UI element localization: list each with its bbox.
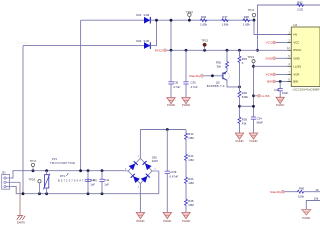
node top-line junctions bbox=[32, 169, 35, 172]
ground PGND under R45 bbox=[182, 212, 190, 222]
svg-text:4.7uF: 4.7uF bbox=[173, 85, 180, 89]
wire LL/SS pin bbox=[254, 65, 288, 67]
resistor R45 bbox=[185, 199, 195, 213]
svg-text:24VAC: 24VAC bbox=[17, 40, 29, 45]
svg-text:10k: 10k bbox=[314, 197, 319, 201]
port VCC bbox=[266, 41, 288, 45]
svg-text:1.65k: 1.65k bbox=[200, 22, 207, 26]
test point TP19 bbox=[247, 55, 255, 66]
ground EARTH bbox=[17, 216, 26, 225]
wire left AC rail bbox=[22, 46, 24, 194]
ground PGND under C39 bbox=[163, 212, 171, 222]
svg-text:EARTH: EARTH bbox=[17, 221, 25, 224]
resistor R39 bbox=[238, 117, 247, 134]
svg-text:10M: 10M bbox=[188, 158, 194, 162]
svg-text:PGND: PGND bbox=[163, 219, 171, 223]
resistor R38 bbox=[243, 15, 251, 27]
port GND bbox=[265, 57, 287, 61]
node RVCC junctions bbox=[170, 49, 173, 52]
svg-text:R40: R40 bbox=[299, 187, 305, 191]
wire AC neutral (bottom) bbox=[11, 187, 159, 194]
svg-text:VCR: VCR bbox=[293, 73, 299, 77]
svg-text:U4: U4 bbox=[293, 23, 297, 27]
svg-text:RVCC: RVCC bbox=[293, 48, 301, 52]
ground PGND lower right bbox=[302, 210, 311, 220]
test point TP15 bbox=[201, 39, 208, 51]
diodes in diamond bbox=[129, 161, 152, 183]
svg-text:BC856B-7-F: BC856B-7-F bbox=[207, 84, 225, 88]
svg-text:TP15: TP15 bbox=[201, 39, 208, 43]
capacitor C40 bbox=[85, 171, 95, 194]
svg-text:PGND: PGND bbox=[136, 219, 144, 223]
wire RVCC line bbox=[167, 49, 288, 51]
svg-text:S1M: S1M bbox=[144, 39, 150, 43]
svg-text:2.05: 2.05 bbox=[297, 8, 303, 12]
svg-text:43k: 43k bbox=[242, 122, 247, 126]
svg-text:PGND: PGND bbox=[235, 139, 243, 143]
port BW bbox=[267, 80, 287, 84]
pin 6 BW bbox=[288, 78, 299, 83]
svg-text:1uF: 1uF bbox=[104, 182, 109, 186]
svg-text:R41: R41 bbox=[297, 1, 303, 5]
wire second AC rail bbox=[80, 20, 82, 171]
pin 7 VCR bbox=[288, 71, 300, 76]
wire AC line (top) bbox=[11, 171, 125, 178]
svg-text:D31: D31 bbox=[136, 13, 141, 17]
port VCR bbox=[266, 73, 288, 77]
diode D31 bbox=[81, 13, 171, 24]
ground PGND under C38 bbox=[276, 97, 284, 107]
node standby junction bbox=[211, 74, 214, 77]
svg-text:1.65k: 1.65k bbox=[243, 22, 250, 26]
wire RVCC drop bbox=[170, 20, 172, 50]
thermistor RT1 label bbox=[58, 173, 98, 182]
svg-text:D32: D32 bbox=[136, 39, 141, 43]
port Standby (upper) bbox=[189, 74, 203, 78]
svg-text:PGND: PGND bbox=[302, 216, 310, 220]
ground PGND under bridge bbox=[136, 212, 144, 222]
wire DC bus bbox=[140, 129, 186, 131]
resistor R30 549k bbox=[238, 87, 248, 117]
pin 4 LL/SS bbox=[288, 63, 302, 68]
svg-text:Standby: Standby bbox=[270, 190, 282, 194]
svg-text:30k: 30k bbox=[216, 65, 221, 69]
node bottom-line junctions bbox=[22, 192, 25, 195]
svg-text:PGND: PGND bbox=[249, 139, 257, 143]
pin 1 HV bbox=[288, 31, 298, 36]
svg-text:TP17: TP17 bbox=[30, 159, 37, 163]
svg-text:D30: D30 bbox=[152, 155, 157, 159]
resistor R33 bbox=[238, 50, 247, 87]
svg-text:TP19: TP19 bbox=[247, 55, 254, 59]
resistor R40 bbox=[285, 187, 320, 199]
wire cross link bbox=[240, 105, 254, 107]
svg-text:1.65k: 1.65k bbox=[222, 22, 229, 26]
svg-text:HV: HV bbox=[293, 33, 297, 37]
svg-text:UCC25640xDDBR: UCC25640xDDBR bbox=[293, 88, 320, 92]
svg-text:4.7uF: 4.7uF bbox=[191, 85, 198, 89]
svg-text:VCC: VCC bbox=[293, 41, 299, 45]
svg-text:10M: 10M bbox=[188, 181, 194, 185]
svg-text:420V: 420V bbox=[152, 159, 158, 163]
pin 5 GND bbox=[288, 55, 300, 60]
capacitor C34 bbox=[251, 117, 263, 133]
ground PGND under C34 bbox=[249, 133, 257, 143]
wire top-right feed line bbox=[258, 5, 320, 50]
capacitor C35 bbox=[183, 50, 198, 97]
svg-text:Standby: Standby bbox=[189, 74, 201, 78]
svg-text:TP11: TP11 bbox=[248, 8, 255, 12]
test point TP14 bbox=[186, 10, 193, 22]
svg-text:PGND: PGND bbox=[182, 103, 190, 107]
resistor R42 bbox=[185, 130, 195, 154]
resistor R36 bbox=[200, 15, 208, 27]
test point TP17 bbox=[30, 159, 37, 171]
svg-text:PV1: PV1 bbox=[52, 157, 57, 161]
svg-text:RVCC: RVCC bbox=[155, 49, 164, 53]
wire earth bbox=[11, 181, 20, 183]
wire standby to base bbox=[204, 75, 223, 77]
resistor R35 bbox=[216, 50, 229, 71]
svg-text:15: 15 bbox=[316, 188, 320, 192]
wire Q5 collector bbox=[227, 80, 240, 87]
port Standby (lower) bbox=[270, 190, 284, 194]
svg-text:68nF: 68nF bbox=[257, 121, 264, 125]
transistor Q5 bbox=[207, 71, 230, 88]
port LL/SS bbox=[254, 94, 270, 98]
svg-text:10M: 10M bbox=[188, 136, 194, 140]
node RVCC-top junction bbox=[256, 49, 259, 52]
svg-text:C38: C38 bbox=[274, 88, 280, 92]
ground PGND under C35 bbox=[182, 98, 190, 108]
op-amp U4 IC box bbox=[291, 23, 320, 92]
port RVCC bbox=[155, 49, 167, 53]
svg-text:TP18: TP18 bbox=[28, 177, 35, 181]
ground PGND under R39 bbox=[235, 133, 243, 143]
svg-text:LL/SS: LL/SS bbox=[262, 94, 270, 98]
svg-text:S1M: S1M bbox=[144, 13, 150, 17]
svg-text:GND: GND bbox=[293, 57, 299, 61]
resistor R37 bbox=[221, 15, 229, 27]
svg-text:BW: BW bbox=[267, 80, 272, 84]
capacitor C36 bbox=[168, 50, 180, 97]
wire LL/SS vertical bbox=[253, 66, 255, 117]
capacitor C41 bbox=[99, 171, 109, 194]
svg-text:10pF: 10pF bbox=[282, 91, 289, 95]
svg-text:549k: 549k bbox=[242, 95, 249, 99]
ground PGND under C36 bbox=[167, 98, 175, 108]
bridge rectifier D30 bbox=[125, 130, 159, 213]
pin 12 RVCC bbox=[287, 47, 301, 52]
svg-text:R37: R37 bbox=[222, 15, 228, 19]
resistor R44 bbox=[185, 177, 195, 199]
svg-text:10M: 10M bbox=[188, 203, 194, 207]
svg-text:PGND: PGND bbox=[276, 103, 284, 107]
pin 2 VCC bbox=[288, 39, 300, 44]
svg-text:VCR: VCR bbox=[266, 73, 273, 77]
resistor R43 bbox=[185, 154, 195, 177]
test point TP18 bbox=[28, 177, 41, 193]
capacitor C39 bbox=[165, 130, 179, 213]
svg-text:100k: 100k bbox=[298, 194, 305, 198]
svg-text:TMOV20RP750E: TMOV20RP750E bbox=[50, 161, 75, 165]
svg-text:PGND: PGND bbox=[167, 103, 175, 107]
svg-text:RT1: RT1 bbox=[60, 174, 65, 178]
wire diode2 cathode link bbox=[150, 20, 156, 45]
svg-text:GND: GND bbox=[265, 57, 273, 61]
svg-text:1uF: 1uF bbox=[90, 182, 95, 186]
svg-text:R38: R38 bbox=[244, 15, 250, 19]
resistor R41 bbox=[297, 1, 305, 12]
diode D32 bbox=[23, 39, 150, 49]
wire HV chain line bbox=[171, 19, 254, 21]
node mid junction bbox=[238, 105, 241, 108]
wire HV to pin 1 bbox=[254, 20, 288, 34]
svg-text:J31: J31 bbox=[2, 171, 7, 175]
svg-text:PGND: PGND bbox=[182, 219, 190, 223]
svg-text:R36: R36 bbox=[201, 15, 207, 19]
svg-text:LL/SS: LL/SS bbox=[293, 65, 301, 69]
svg-text:BW: BW bbox=[293, 80, 298, 84]
svg-text:VCC: VCC bbox=[266, 41, 273, 45]
svg-text:0.47uF: 0.47uF bbox=[170, 174, 179, 178]
test point TP11 bbox=[248, 8, 256, 21]
wire lower right to PGND bbox=[306, 201, 320, 210]
capacitor C38 bbox=[274, 80, 289, 97]
varistor PV1 bbox=[43, 157, 75, 194]
connector J31 bbox=[2, 171, 12, 190]
